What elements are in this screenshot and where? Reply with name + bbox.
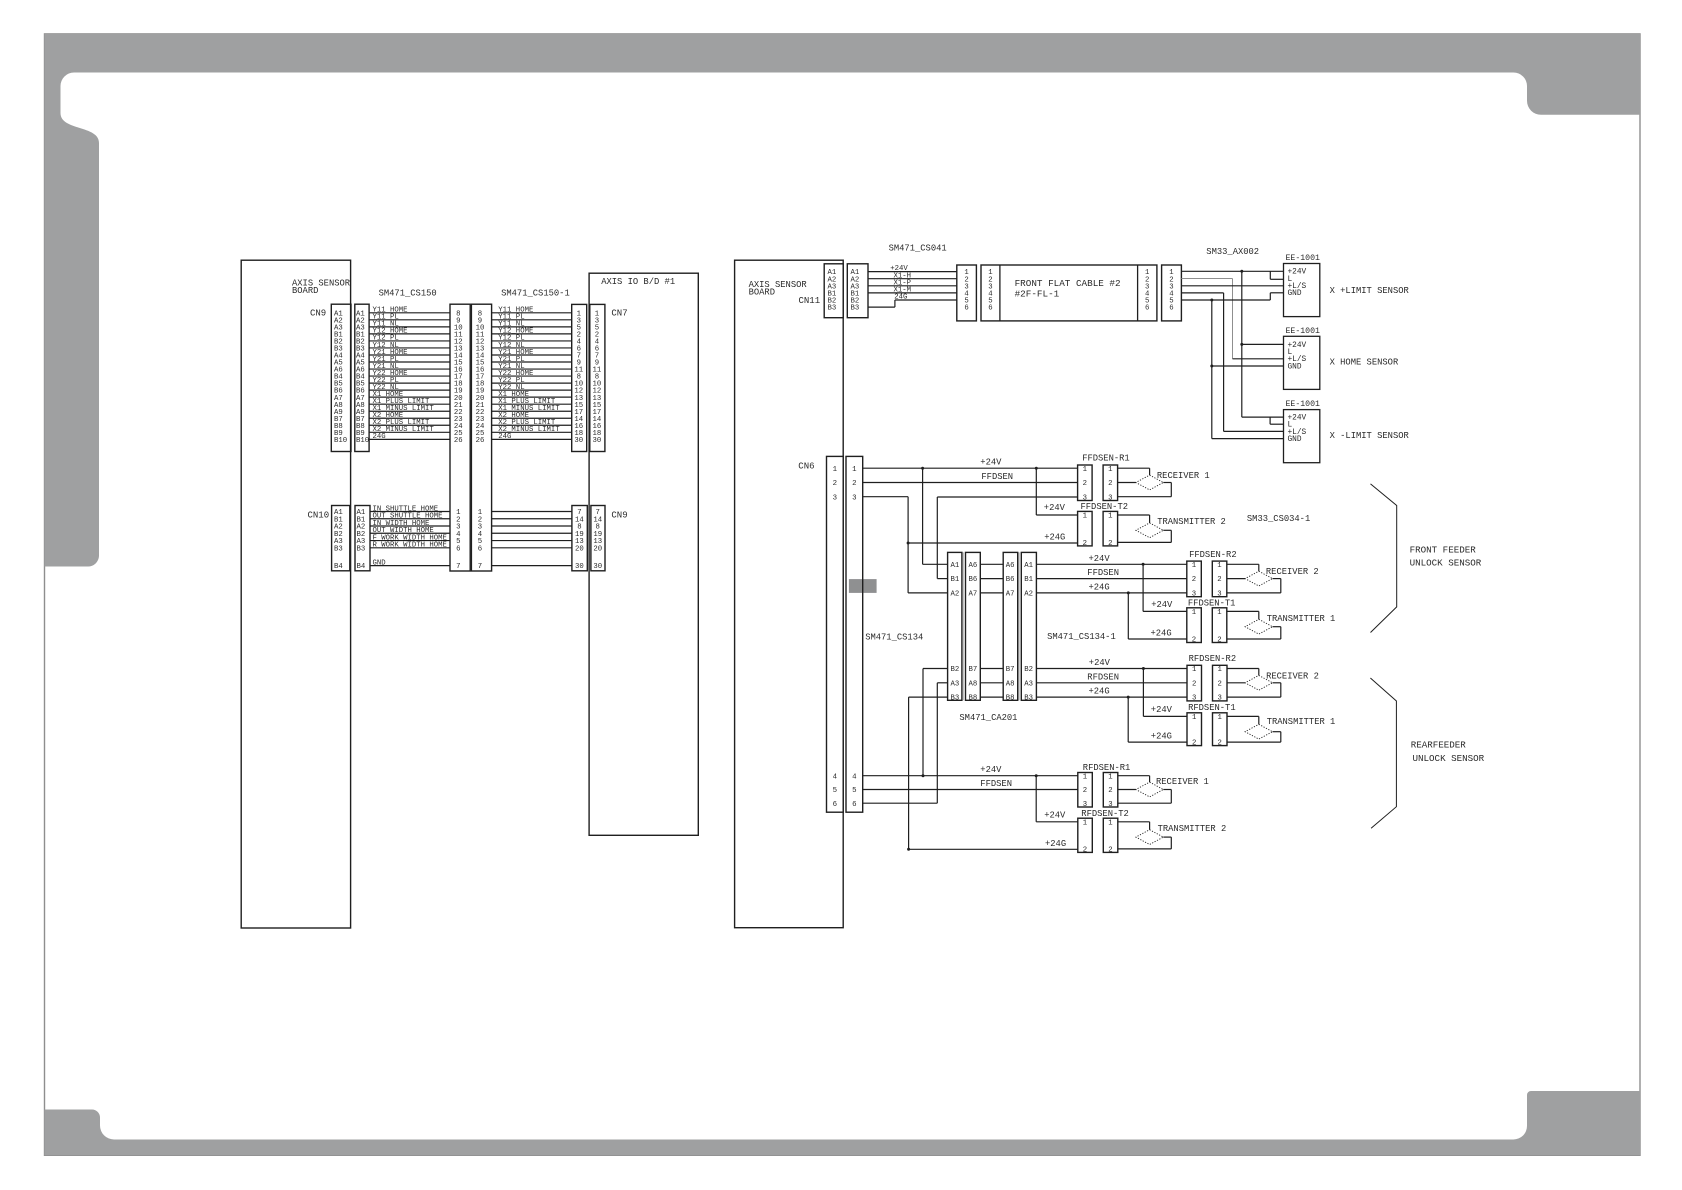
svg-text:SM471_CA201: SM471_CA201: [959, 713, 1017, 723]
connector CN11 pin column 1: [824, 264, 843, 318]
svg-text:1: 1: [1083, 819, 1088, 827]
wire X1 MINUS LIMIT (cable to CN7 pin 17): [492, 405, 572, 413]
svg-text:RFDSEN-T2: RFDSEN-T2: [1081, 809, 1129, 819]
wire FFDSEN-R1.3 to SM471_CS134 B1: [937, 497, 1077, 579]
wire SM471_CS134 A8 interconnect: [980, 682, 1003, 684]
label TRANSMITTER 1: [1267, 614, 1336, 624]
connector RFDSEN-R1 strip 1: [1078, 773, 1093, 809]
svg-text:7: 7: [456, 563, 460, 571]
label X -LIMIT SENSOR: [1330, 431, 1410, 441]
wire SM471_CS134 B8 interconnect: [980, 696, 1003, 698]
photo sensor diamond TRANSMITTER 2: [1136, 523, 1163, 538]
svg-text:B4: B4: [357, 563, 366, 571]
svg-text:+24V: +24V: [1044, 503, 1066, 513]
connector SM471_CS134-1 strip A (A6/B6/A7/B7/A8/B8): [1003, 552, 1018, 702]
svg-text:B6: B6: [969, 576, 978, 584]
wire Y11 HOME (cable to CN7 pin 1): [492, 307, 572, 315]
svg-text:2: 2: [1108, 540, 1112, 548]
svg-text:B4: B4: [334, 563, 343, 571]
svg-text:1: 1: [1217, 609, 1222, 617]
connector CN11 pin column 2: [847, 264, 868, 318]
svg-text:B10: B10: [334, 437, 347, 445]
svg-text:1: 1: [1217, 562, 1222, 570]
svg-text:FFDSEN-R1: FFDSEN-R1: [1082, 454, 1130, 464]
cable SM471_CS150 right strip lower pins: [478, 509, 483, 571]
svg-text:A6: A6: [1006, 562, 1015, 570]
photo sensor diamond RECEIVER 2: [1245, 675, 1272, 690]
svg-text:BOARD: BOARD: [749, 287, 775, 297]
svg-text:+24G: +24G: [1151, 629, 1172, 639]
label CN7: [611, 309, 627, 319]
svg-text:B1: B1: [1024, 576, 1033, 584]
label RECEIVER 2: [1266, 671, 1319, 681]
wire Y21 PL (cable to CN7 pin 9): [492, 356, 572, 364]
svg-text:REARFEEDER: REARFEEDER: [1411, 739, 1467, 750]
svg-text:B7: B7: [1006, 666, 1015, 674]
wire X1_PLUS LIMIT (CN9 row 14 to cable): [369, 398, 450, 406]
wire X1_HOME (cable to CN7 pin 13): [492, 391, 572, 399]
gray separator line in SM471_CS134-1: [1018, 552, 1020, 700]
svg-text:6: 6: [833, 801, 837, 809]
svg-text:SM471_CS150: SM471_CS150: [379, 289, 437, 299]
svg-text:2: 2: [1108, 480, 1112, 488]
connector SM471_CS041 strip: [957, 265, 977, 321]
connector SM471_CS134 strip A (A1/B1/A2/B2/A3/B3): [948, 552, 962, 702]
wire RFDSEN-T2 pin2 return loop: [1118, 837, 1172, 849]
connector CN7 pin column 2: [590, 304, 605, 451]
label FFDSEN-T1: [1188, 598, 1236, 608]
connector CN9 pin column 1: [331, 304, 351, 451]
sensor EE-1001 #2: [1284, 327, 1320, 390]
wire +24V front (CN6.1 to FFDSEN-R1.1): [863, 458, 1078, 470]
svg-text:B3: B3: [951, 695, 960, 703]
wire SM471_CS134 A6 interconnect: [980, 563, 1003, 565]
wire FFDSEN-T1 pin1 to diamond top: [1227, 611, 1259, 619]
wire X1-P (CN11.A3 to SM471_CS041.3): [868, 279, 957, 287]
wire +24V bus down to EE#2 and EE#3: [1240, 270, 1283, 417]
wire Y11 PL (cable to CN7 pin 3): [492, 314, 572, 322]
wire OUT SHUTTLE HOME (CN10 to cable pin 2): [370, 513, 450, 521]
svg-text:B10: B10: [356, 437, 369, 445]
svg-text:26: 26: [454, 437, 463, 445]
svg-text:B6: B6: [1006, 576, 1015, 584]
brace FRONT FEEDER UNLOCK SENSOR: [1371, 484, 1482, 633]
svg-text:+24G: +24G: [1044, 533, 1065, 543]
sensor EE-1001 #1: [1284, 254, 1320, 317]
svg-text:RFDSEN: RFDSEN: [1087, 672, 1119, 682]
svg-text:+24G: +24G: [1045, 839, 1066, 849]
connector RFDSEN-T2 strip 1: [1078, 818, 1093, 854]
wire RFDSEN-R1 pin3 return loop: [1118, 790, 1172, 804]
cable SM471_CS150 right strip: [471, 304, 491, 571]
board AXIS IO B/D #1: [589, 273, 698, 835]
svg-text:6: 6: [1169, 305, 1173, 313]
svg-text:A8: A8: [969, 680, 978, 688]
wire Y11 PL (CN9 row 2 to cable): [369, 314, 450, 322]
wire +24G (CS134-1 A2 to FFDSEN-R2.3): [1036, 582, 1186, 594]
svg-text:1: 1: [1218, 666, 1223, 674]
svg-text:2: 2: [1192, 576, 1196, 584]
wire SM33_AX002.3 to EE#1 +L/S: [1181, 285, 1283, 287]
svg-text:BOARD: BOARD: [292, 286, 318, 296]
wire Y21 PL (CN9 row 8 to cable): [369, 356, 450, 364]
svg-text:+24V: +24V: [1151, 600, 1173, 610]
svg-text:B3: B3: [357, 545, 366, 553]
wire FFDSEN-R1 pin1 to diamond top: [1118, 468, 1150, 475]
svg-text:1: 1: [852, 466, 857, 474]
svg-text:A8: A8: [1006, 680, 1015, 688]
svg-text:RECEIVER 1: RECEIVER 1: [1156, 777, 1209, 787]
svg-text:#2F-FL-1: #2F-FL-1: [1015, 288, 1060, 299]
svg-text:6: 6: [1145, 305, 1149, 313]
svg-text:1: 1: [1192, 666, 1197, 674]
svg-text:A2: A2: [1024, 591, 1033, 599]
wire FFDSEN-R1 pin3 return loop: [1118, 483, 1172, 497]
svg-text:FFDSEN-R2: FFDSEN-R2: [1189, 550, 1237, 560]
wire +24V drop to RFDSEN-T1.1: [1143, 669, 1187, 717]
wire cable lower row 4 to CN9 pin 19: [492, 532, 572, 534]
wire FFDSEN-R2 pin3 return loop: [1227, 579, 1281, 593]
connector FFDSEN-R1 strip 1: [1078, 465, 1093, 502]
wire +24V rise to SM471_CS134 B2: [923, 669, 948, 776]
svg-text:A2: A2: [951, 591, 960, 599]
wire RFDSEN-T1 pin2 return loop: [1227, 732, 1281, 742]
svg-text:2: 2: [1217, 637, 1221, 645]
label RECEIVER 2: [1266, 567, 1319, 577]
svg-text:3: 3: [1108, 801, 1112, 809]
svg-text:6: 6: [478, 545, 482, 553]
svg-text:1: 1: [1108, 819, 1113, 827]
svg-text:3: 3: [1218, 695, 1222, 703]
svg-text:2: 2: [833, 480, 837, 488]
connector FFDSEN-R1 strip 2: [1103, 465, 1118, 502]
wire X2_MINUS LIMIT (cable to CN7 pin 18): [492, 426, 572, 434]
label CN11: [799, 296, 821, 306]
connector RFDSEN-T2 strip 2: [1103, 818, 1118, 854]
wire RFDSEN-R2 pin1 to diamond top: [1227, 669, 1259, 676]
svg-text:TRANSMITTER 1: TRANSMITTER 1: [1267, 717, 1336, 727]
svg-text:GND: GND: [1288, 290, 1302, 298]
svg-text:2: 2: [1218, 680, 1222, 688]
wire Y11 HOME (CN9 row 1 to cable): [369, 307, 450, 315]
label RECEIVER 1: [1156, 777, 1209, 787]
label X +LIMIT SENSOR: [1330, 286, 1410, 296]
photo sensor diamond RECEIVER 2: [1245, 571, 1272, 586]
wire X2_PLUS LIMIT (cable to CN7 pin 16): [492, 419, 572, 427]
svg-text:B3: B3: [1024, 695, 1033, 703]
wire +24V (CS134-1 A1 to FFDSEN-R2.1): [1036, 554, 1186, 566]
svg-text:CN9: CN9: [611, 510, 627, 520]
wire RFDSEN-T2 pin1 to diamond top: [1118, 822, 1150, 830]
connector CN7 pin column 1: [572, 304, 587, 451]
wire SM33_AX002.1 +24V to EE#1: [1181, 270, 1283, 272]
svg-text:30: 30: [593, 437, 602, 445]
wire SM471_CS134 A7 interconnect: [980, 592, 1003, 594]
svg-text:CN7: CN7: [611, 309, 627, 319]
svg-text:30: 30: [593, 563, 602, 571]
svg-text:2: 2: [1083, 847, 1087, 855]
wire 24G (CN11.B3 to SM471_CS041.5 with jog): [868, 294, 957, 308]
svg-text:2: 2: [1217, 576, 1221, 584]
label SM471_CA201: [959, 713, 1017, 723]
svg-text:3: 3: [1192, 591, 1196, 599]
label SM471_CS134-1: [1047, 632, 1116, 642]
label RFDSEN-R1: [1083, 763, 1131, 773]
wire Y22 HOME (cable to CN7 pin 8): [492, 370, 572, 378]
label FFDSEN-T2: [1081, 502, 1129, 512]
svg-text:A7: A7: [1006, 591, 1015, 599]
wire +24G (CS134-1 B3 to RFDSEN-R2.3): [1036, 687, 1187, 699]
gray frame bottom band: [45, 1091, 1641, 1155]
svg-text:2: 2: [852, 480, 856, 488]
connector FFDSEN-T2 strip 2: [1103, 511, 1118, 548]
gray frame left sidebar: [45, 110, 100, 567]
svg-text:TRANSMITTER 2: TRANSMITTER 2: [1158, 824, 1227, 834]
photo sensor diamond TRANSMITTER 1: [1245, 619, 1272, 634]
svg-text:GND: GND: [1288, 363, 1302, 371]
wire +24G drop to FFDSEN-T1.2: [1128, 593, 1187, 639]
wire FFDSEN-R2 pin1 to diamond top: [1227, 564, 1259, 571]
cable SM471_CS150 label: [379, 289, 437, 299]
wire Y11 NL (CN9 row 3 to cable): [369, 321, 450, 329]
wire Y12_HOME (CN9 row 4 to cable): [369, 328, 450, 336]
label X HOME SENSOR: [1330, 358, 1399, 368]
svg-text:2: 2: [1192, 680, 1196, 688]
connector SM33_AX002 strip: [1162, 265, 1182, 321]
wire cable lower row 6 to CN9 pin 20: [492, 547, 572, 549]
label TRANSMITTER 2: [1158, 824, 1227, 834]
label FFDSEN-R1: [1082, 454, 1130, 464]
svg-text:1: 1: [1083, 466, 1088, 474]
wire FFDSEN-R2 pin2 to diamond left: [1227, 578, 1245, 580]
svg-text:UNLOCK SENSOR: UNLOCK SENSOR: [1410, 557, 1482, 568]
connector CN6 pin column 1: [827, 456, 844, 812]
label TRANSMITTER 1: [1267, 717, 1336, 727]
svg-text:24G: 24G: [498, 433, 511, 441]
wire FFDSEN-T2 pin1 to diamond top: [1118, 515, 1150, 523]
wire Y21 NL (cable to CN7 pin 11): [492, 363, 572, 371]
photo sensor diamond TRANSMITTER 1: [1245, 724, 1272, 739]
wire F WORK WIDTH HOME (CN10 to cable pin 5): [370, 534, 450, 542]
label SM33_AX002: [1206, 247, 1259, 257]
wire X2_HOME (cable to CN7 pin 14): [492, 412, 572, 420]
connector SM471_CS134-1 strip B (A1/B1/A2/B2/A3/B3): [1021, 552, 1036, 702]
wire X1 MINUS LIMIT (CN9 row 15 to cable): [369, 405, 450, 413]
connector CN10 pin column 2: [355, 506, 370, 572]
wire CN6.6 to SM471_CS134 A3: [863, 683, 948, 803]
svg-text:EE-1001: EE-1001: [1286, 327, 1320, 336]
wire Y22 NL (cable to CN7 pin 12): [492, 384, 572, 392]
wire IN SHUTTLE HOME (CN10 to cable pin 1): [370, 505, 450, 513]
wire +24V (CN11.A1 to SM471_CS041.1): [868, 265, 957, 273]
svg-text:4: 4: [833, 773, 838, 781]
svg-text:1: 1: [1083, 513, 1088, 521]
wire Y12 PL (cable to CN7 pin 4): [492, 335, 572, 343]
svg-text:B8: B8: [969, 695, 978, 703]
svg-text:A7: A7: [969, 591, 978, 599]
svg-text:B3: B3: [334, 545, 343, 553]
svg-text:+24V: +24V: [1089, 658, 1111, 668]
board AXIS SENSOR BOARD (left): [241, 260, 351, 928]
photo sensor diamond RECEIVER 1: [1136, 475, 1163, 490]
svg-text:4: 4: [852, 773, 857, 781]
wire SM33_AX002.4 to EE#3 +L/S: [1181, 293, 1283, 432]
svg-text:3: 3: [1083, 801, 1087, 809]
svg-text:7: 7: [478, 563, 482, 571]
wire X2_PLUS LIMIT (CN9 row 17 to cable): [369, 419, 450, 427]
svg-text:1: 1: [1218, 714, 1223, 722]
wire cable lower row 1 to CN9 pin 7: [492, 511, 572, 513]
svg-text:B7: B7: [969, 666, 978, 674]
wire IN WIDTH HOME (CN10 to cable pin 3): [370, 520, 450, 528]
svg-text:1: 1: [1192, 562, 1197, 570]
wire Y21 HOME (cable to CN7 pin 7): [492, 349, 572, 357]
svg-text:X +LIMIT SENSOR: X +LIMIT SENSOR: [1330, 286, 1410, 296]
svg-text:24G: 24G: [373, 433, 386, 441]
wire FFDSEN-T2 pin2 return loop: [1118, 530, 1172, 542]
svg-text:A3: A3: [1024, 680, 1033, 688]
svg-text:A1: A1: [951, 562, 960, 570]
svg-text:SM471_CS041: SM471_CS041: [889, 244, 947, 254]
connector SM471_CS134 strip B (A6/B6/A7/B7/A8/B8): [966, 552, 981, 702]
svg-text:1: 1: [1108, 466, 1113, 474]
svg-text:GND: GND: [373, 559, 387, 567]
wire +24G drop to RFDSEN-T1.2: [1128, 697, 1187, 742]
connector RFDSEN-R1 strip 2: [1103, 773, 1118, 809]
svg-text:SM33_CS034-1: SM33_CS034-1: [1247, 514, 1310, 524]
wire RFDSEN-R1 pin1 to diamond top: [1118, 776, 1150, 782]
cable SM471_CS150 left strip: [450, 304, 470, 571]
svg-text:+24G: +24G: [1089, 687, 1110, 697]
svg-text:2: 2: [1192, 740, 1196, 748]
wire +24V drop to RFDSEN-T2.1: [1036, 776, 1078, 822]
label CN9 (left board): [310, 309, 326, 319]
svg-text:+24V: +24V: [980, 765, 1002, 775]
cable SM471_CS041 label: [889, 244, 947, 254]
svg-text:6: 6: [988, 305, 992, 313]
svg-text:5: 5: [833, 787, 837, 795]
svg-text:+24V: +24V: [1151, 705, 1173, 715]
wire FFDSEN-T1 pin2 return loop: [1227, 627, 1281, 639]
wire SM33_AX002.2 to EE#2 +L/S (gray): [1181, 279, 1283, 359]
board AXIS SENSOR BOARD (right): [735, 260, 844, 928]
wire 24G (cable to CN7 pin 30): [492, 433, 572, 441]
wire +24V drop to SM471_CS134 A1: [923, 468, 948, 564]
svg-text:1: 1: [1108, 513, 1113, 521]
wire FFDSEN (CS134-1 B1 to FFDSEN-R2.2): [1036, 568, 1186, 578]
label RFDSEN-T1: [1188, 703, 1236, 713]
svg-text:CN10: CN10: [308, 510, 330, 520]
wire step to EE#3 L pin: [1270, 417, 1283, 424]
wire X1-M (CN11.B1 to SM471_CS041.4): [868, 287, 957, 295]
svg-text:2: 2: [1083, 480, 1087, 488]
label CN6: [798, 462, 814, 472]
svg-text:FFDSEN: FFDSEN: [980, 779, 1012, 789]
svg-text:TRANSMITTER 1: TRANSMITTER 1: [1267, 614, 1336, 624]
wire RFDSEN-R2 pin3 return loop: [1227, 683, 1281, 697]
label SM471_CS134: [865, 632, 923, 642]
svg-text:2: 2: [1083, 787, 1087, 795]
wire +24V (CS134-1 B2 to RFDSEN-R2.1): [1036, 658, 1187, 670]
connector RFDSEN-T1 strip 1: [1187, 713, 1202, 748]
svg-text:30: 30: [574, 437, 583, 445]
label FFDSEN-R2: [1189, 550, 1237, 560]
svg-text:+24G: +24G: [1089, 582, 1110, 592]
svg-text:RFDSEN-R2: RFDSEN-R2: [1189, 654, 1237, 664]
wire Y12 NL (CN9 row 6 to cable): [369, 342, 450, 350]
gray highlight artifact rectangle: [849, 579, 877, 593]
wire RFDSEN-R1 pin2 to diamond left: [1118, 789, 1136, 791]
wire X1_PLUS LIMIT (cable to CN7 pin 15): [492, 398, 572, 406]
photo sensor diamond TRANSMITTER 2: [1136, 830, 1163, 845]
wire SM33_AX002.5 GND net: [1181, 293, 1283, 439]
wire cable lower row 2 to CN9 pin 14: [492, 518, 572, 520]
wire +24V rear (CN6.4 to RFDSEN-R1.1): [863, 765, 1078, 777]
svg-text:6: 6: [456, 545, 460, 553]
svg-text:GND: GND: [1288, 436, 1302, 444]
connector CN9 (AXIS IO board) pin column 1: [572, 506, 587, 572]
svg-text:SM471_CS150-1: SM471_CS150-1: [501, 289, 570, 299]
svg-text:SM471_CS134-1: SM471_CS134-1: [1047, 632, 1116, 642]
svg-text:R WORK WIDTH HOME: R WORK WIDTH HOME: [373, 542, 447, 550]
brace REARFEEDER UNLOCK SENSOR: [1370, 678, 1484, 828]
svg-text:A1: A1: [1024, 562, 1033, 570]
wire cable lower row 7 to CN9 pin 30: [492, 565, 572, 567]
component FRONT FLAT CABLE #2 box: [981, 265, 1157, 321]
svg-text:3: 3: [833, 494, 837, 502]
svg-text:CN11: CN11: [799, 296, 821, 306]
svg-text:B2: B2: [951, 666, 960, 674]
wire RFDSEN-R2 pin2 to diamond left: [1227, 682, 1245, 684]
wire X2_MINUS LIMIT (CN9 row 18 to cable): [369, 426, 450, 434]
connector FFDSEN-T2 strip 1: [1078, 511, 1093, 548]
svg-text:FFDSEN: FFDSEN: [981, 472, 1013, 482]
wire +24V drop to FFDSEN-T2.1: [1036, 468, 1077, 515]
svg-text:+24V: +24V: [1089, 554, 1111, 564]
wire GND (CN10 to cable pin 7): [370, 559, 450, 567]
cable SM471_CS150-1 label: [501, 289, 570, 299]
wire cable lower row 3 to CN9 pin 8: [492, 525, 572, 527]
connector CN6 pin column 2: [846, 456, 863, 812]
sensor EE-1001 #3: [1284, 400, 1320, 463]
svg-text:A3: A3: [951, 680, 960, 688]
svg-text:X -LIMIT SENSOR: X -LIMIT SENSOR: [1330, 431, 1410, 441]
wire cable lower row 5 to CN9 pin 13: [492, 540, 572, 542]
svg-text:2: 2: [1108, 787, 1112, 795]
svg-text:B2: B2: [1024, 666, 1033, 674]
wire step to EE#1 L pin: [1270, 271, 1283, 279]
svg-text:2: 2: [1083, 540, 1087, 548]
label RFDSEN-T2: [1081, 809, 1129, 819]
svg-text:3: 3: [1192, 695, 1196, 703]
wire Y22 HOME (CN9 row 10 to cable): [369, 370, 450, 378]
svg-text:1: 1: [1083, 773, 1088, 781]
wire Y12 PL (CN9 row 5 to cable): [369, 335, 450, 343]
svg-text:B1: B1: [951, 576, 960, 584]
wire Y22_PL (CN9 row 11 to cable): [369, 377, 450, 385]
label CN10 (left board): [308, 510, 330, 520]
wire Y12_HOME (cable to CN7 pin 2): [492, 328, 572, 336]
connector RFDSEN-R2 strip 1: [1187, 665, 1202, 702]
svg-text:20: 20: [575, 545, 584, 553]
svg-text:30: 30: [575, 563, 584, 571]
svg-text:+24V: +24V: [980, 458, 1002, 468]
label RECEIVER 1: [1157, 471, 1210, 481]
wire +24G front (branch to FFDSEN-T2.2): [908, 533, 1078, 543]
svg-text:3: 3: [852, 494, 856, 502]
svg-text:3: 3: [1217, 591, 1221, 599]
svg-text:EE-1001: EE-1001: [1286, 254, 1320, 263]
